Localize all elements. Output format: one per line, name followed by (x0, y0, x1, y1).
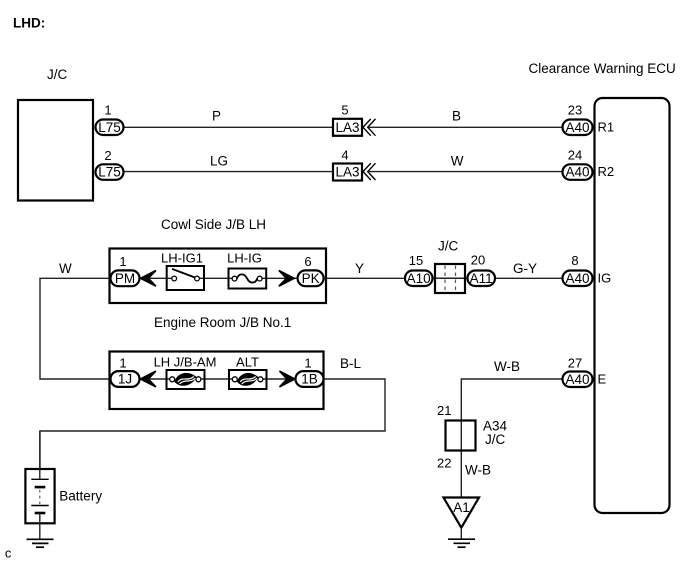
svg-text:Engine Room J/B No.1: Engine Room J/B No.1 (154, 315, 291, 330)
svg-text:L75: L75 (98, 120, 121, 135)
svg-text:1: 1 (304, 356, 311, 371)
svg-text:E: E (598, 371, 607, 386)
arrow into 1J (141, 371, 156, 387)
svg-text:22: 22 (437, 456, 451, 471)
svg-text:21: 21 (437, 403, 451, 418)
fusible link LH J/B-AM (154, 355, 217, 390)
svg-text:W: W (451, 154, 464, 169)
svg-text:PK: PK (302, 271, 320, 286)
svg-text:G-Y: G-Y (513, 261, 537, 276)
label LG (210, 154, 228, 169)
pin 22 label (437, 456, 451, 471)
svg-text:PM: PM (115, 271, 135, 286)
wire W-B (A34 junction to A40-27) (461, 379, 563, 497)
svg-text:Clearance Warning ECU: Clearance Warning ECU (529, 61, 676, 76)
Engine Room J/B No.1 box (110, 352, 324, 410)
svg-text:R2: R2 (598, 164, 615, 179)
svg-text:23: 23 (568, 103, 582, 118)
svg-text:LH-IG1: LH-IG1 (161, 251, 203, 266)
connector A40 pin 27 (E) (563, 356, 607, 388)
battery (25, 431, 102, 539)
connector PK pin 6 (298, 254, 324, 286)
svg-text:A40: A40 (565, 120, 589, 135)
svg-text:1J: 1J (118, 372, 132, 387)
wire G-Y (A11 to A40-8) (496, 277, 563, 279)
svg-text:24: 24 (568, 148, 582, 163)
pin 21 label (437, 403, 451, 418)
svg-text:LH-IG: LH-IG (227, 251, 262, 266)
svg-text:1: 1 (119, 254, 126, 269)
svg-text:A40: A40 (565, 271, 589, 286)
svg-text:1: 1 (104, 103, 111, 118)
ECU body (Clearance Warning ECU) (595, 98, 670, 513)
page marker c (5, 546, 12, 561)
label Clearance Warning ECU (529, 61, 676, 76)
svg-text:P: P (212, 109, 221, 124)
ground symbol below A1 (448, 528, 475, 548)
junction J/C box (dashed internals) (433, 264, 467, 293)
svg-text:LHD:: LHD: (13, 16, 45, 31)
fusible link ALT (229, 355, 267, 390)
svg-text:A40: A40 (565, 165, 589, 180)
label B (452, 109, 461, 124)
svg-text:c: c (5, 546, 12, 561)
splice chevron on wire W (363, 163, 376, 180)
label W (451, 154, 464, 169)
svg-text:Battery: Battery (59, 489, 102, 504)
Cowl Side J/B LH box (110, 249, 327, 304)
svg-text:LA3: LA3 (335, 120, 359, 135)
svg-text:L75: L75 (98, 165, 121, 180)
label P (212, 109, 221, 124)
svg-text:LA3: LA3 (335, 165, 359, 180)
svg-text:2: 2 (104, 148, 111, 163)
junction connector J/C box (18, 100, 93, 201)
wire segments inside Engine Room J/B (139, 378, 297, 380)
svg-text:W: W (59, 261, 72, 276)
connector LA3 pin 4 (333, 148, 362, 181)
arrow into 1B (280, 371, 295, 387)
svg-text:6: 6 (304, 254, 311, 269)
svg-text:4: 4 (341, 148, 348, 163)
connector L75 pin 1 (96, 103, 124, 136)
svg-text:A1: A1 (453, 500, 470, 515)
wire P (L75-1 to LA3-5) (124, 126, 333, 128)
svg-text:IG: IG (598, 270, 612, 285)
connector A40 pin 24 (R2) (563, 148, 615, 180)
connector LA3 pin 5 (333, 103, 362, 136)
arrow into PM (141, 270, 156, 286)
svg-text:Cowl Side J/B LH: Cowl Side J/B LH (161, 217, 266, 232)
label G-Y (513, 261, 537, 276)
wire W (LA3-4 to A40-24) (368, 171, 563, 173)
label B-L (340, 356, 362, 371)
svg-text:15: 15 (409, 253, 423, 268)
svg-text:5: 5 (341, 103, 348, 118)
wire B-L (1B to battery) (40, 379, 385, 469)
svg-text:LG: LG (210, 154, 228, 169)
wire W (PM to left riser to 1J) (40, 278, 111, 379)
connector 1B pin 1 (296, 356, 324, 387)
connector 1J pin 1 (111, 356, 140, 387)
label W-B (upper) (494, 359, 520, 374)
svg-text:Y: Y (355, 261, 364, 276)
svg-text:R1: R1 (598, 119, 615, 134)
svg-text:20: 20 (471, 253, 485, 268)
splice chevron on wire B (363, 119, 376, 136)
connector A11 pin 20 (468, 253, 496, 287)
label W-B (lower) (465, 463, 491, 478)
wire Y (PK to A10) (325, 277, 406, 279)
svg-text:1B: 1B (301, 372, 318, 387)
svg-text:LH J/B-AM: LH J/B-AM (154, 355, 217, 370)
svg-text:W-B: W-B (494, 359, 520, 374)
svg-text:J/C: J/C (47, 67, 68, 82)
label W (59, 261, 72, 276)
label J/C (top-left junction connector) (47, 67, 68, 82)
connector A40 pin 23 (R1) (563, 103, 615, 136)
connector L75 pin 2 (96, 148, 124, 180)
fuse LH-IG (227, 251, 266, 289)
svg-text:27: 27 (568, 356, 582, 371)
connector A40 pin 8 (IG) (563, 253, 612, 286)
ground connector A1 (triangle) (444, 498, 480, 528)
svg-text:W-B: W-B (465, 463, 491, 478)
svg-text:1: 1 (119, 356, 126, 371)
label Y (355, 261, 364, 276)
ground symbol below battery (27, 539, 54, 547)
svg-text:8: 8 (571, 253, 578, 268)
label Cowl Side J/B LH (161, 217, 266, 232)
switch LH-IG1 (161, 251, 204, 291)
svg-text:B: B (452, 109, 461, 124)
junction A34 J/C box (446, 419, 508, 451)
wire B (LA3-5 to A40-23) (368, 126, 563, 128)
svg-text:ALT: ALT (236, 355, 259, 370)
connector A10 pin 15 (405, 253, 433, 286)
svg-text:A40: A40 (565, 372, 589, 387)
svg-text:B-L: B-L (340, 356, 362, 371)
svg-text:J/C: J/C (438, 239, 459, 254)
label Engine Room J/B No.1 (154, 315, 291, 330)
title LHD: (13, 16, 45, 31)
connector PM pin 1 (111, 254, 140, 286)
label J/C (mid junction) (438, 239, 459, 254)
arrow into PK (279, 270, 294, 286)
svg-text:A11: A11 (470, 271, 493, 286)
svg-text:A10: A10 (407, 271, 431, 286)
wire LG (L75-2 to LA3-4) (124, 171, 333, 173)
svg-text:J/C: J/C (485, 432, 506, 447)
wire segments inside Cowl Side J/B (139, 277, 297, 279)
